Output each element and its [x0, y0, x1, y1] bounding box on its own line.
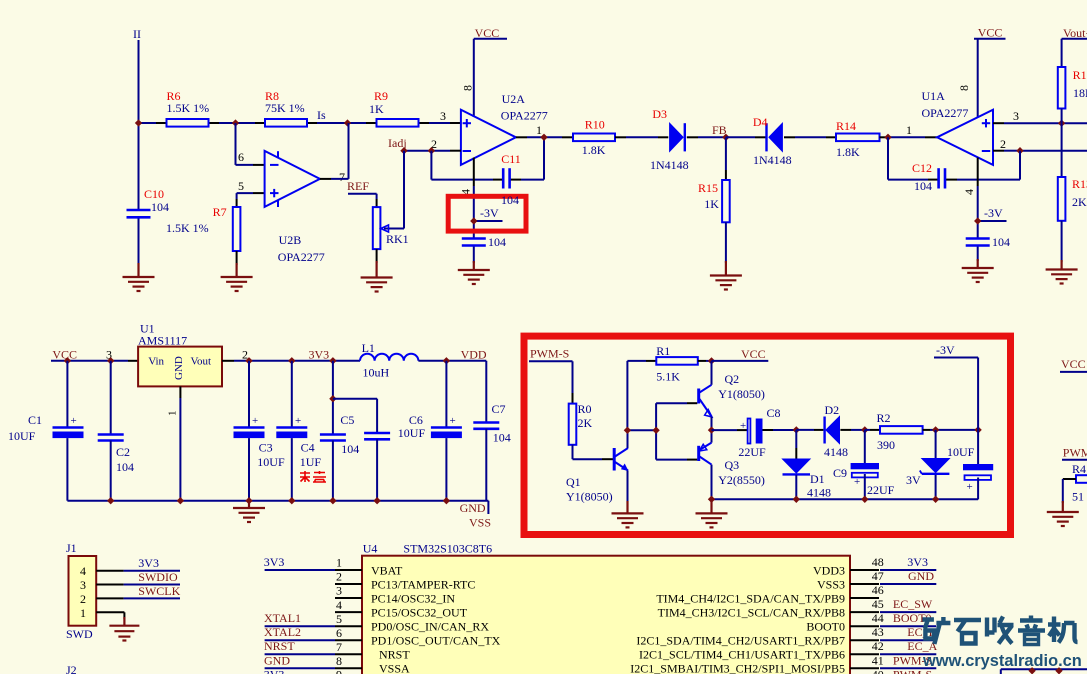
net label REF	[347, 179, 369, 193]
pin number 7	[339, 170, 345, 184]
power net VCC in PWM box	[712, 347, 769, 361]
svg-text:7: 7	[336, 640, 342, 654]
net label PWM-S pin40 (clipped)	[893, 668, 932, 674]
net label Iadj	[388, 136, 407, 150]
junction dot Iadj	[400, 147, 407, 154]
junction dot pin3 row	[1058, 120, 1065, 127]
svg-text:42: 42	[872, 639, 884, 653]
wire pin2 row of U2A	[404, 150, 461, 152]
svg-text:5: 5	[238, 179, 244, 193]
svg-text:3V3: 3V3	[907, 555, 928, 569]
wire PWM-S to R0	[529, 361, 573, 403]
wire RK1 to ground	[376, 249, 378, 263]
ground under R13	[1046, 260, 1078, 284]
wire U2A pin4 down	[473, 158, 475, 264]
svg-text:C7: C7	[492, 402, 506, 416]
junction dot -3V column	[974, 426, 981, 433]
junction dot -3V U1A	[974, 217, 981, 224]
svg-text:VSS: VSS	[469, 516, 491, 530]
capacitor C12	[912, 161, 945, 193]
connector J1	[66, 541, 96, 626]
wire U2A feedback loop	[431, 137, 544, 179]
svg-text:C1: C1	[28, 413, 42, 427]
junction dot watermark wire left	[1028, 667, 1035, 674]
wire R2 to zener junction	[923, 429, 979, 431]
svg-text:VCC: VCC	[978, 26, 1003, 40]
U4 left pin numbers	[336, 556, 342, 674]
junction dot base row left	[624, 427, 631, 434]
svg-text:R0: R0	[578, 402, 592, 416]
svg-text:D2: D2	[825, 403, 840, 417]
wire junction to D2	[796, 429, 823, 431]
svg-text:9: 9	[336, 668, 342, 674]
svg-text:R9: R9	[374, 89, 388, 103]
net label NRST	[264, 639, 295, 653]
wire R10 to D3	[615, 136, 668, 138]
resistor R2	[877, 411, 923, 452]
svg-text:1K: 1K	[704, 197, 719, 211]
svg-text:R4: R4	[1072, 462, 1086, 476]
svg-text:C11: C11	[501, 152, 521, 166]
svg-text:Y1(8050): Y1(8050)	[718, 387, 765, 401]
net label 3V3 pin9 (clipped)	[264, 668, 285, 674]
svg-text:PC13/TAMPER-RTC: PC13/TAMPER-RTC	[371, 577, 475, 591]
svg-text:D4: D4	[753, 115, 768, 129]
svg-text:C12: C12	[912, 161, 932, 175]
op-amp U2A	[461, 92, 548, 165]
svg-text:OPA2277: OPA2277	[278, 250, 325, 264]
svg-text:10UF: 10UF	[398, 426, 426, 440]
junction dot C2 rail	[107, 357, 114, 364]
wire R0 to Q1 base	[573, 445, 614, 459]
svg-text:C3: C3	[259, 441, 273, 455]
junction dots top row	[135, 119, 351, 126]
power net VCC of U1A	[974, 26, 1006, 118]
capacitor C2	[98, 361, 134, 501]
resistor R14	[836, 119, 880, 159]
inductor L1	[360, 341, 418, 380]
op-amp U1A	[922, 89, 994, 165]
power net Vout+	[1062, 26, 1087, 67]
svg-text:PWM-S: PWM-S	[530, 347, 569, 361]
svg-text:Q1: Q1	[566, 475, 581, 489]
resistor R8	[265, 89, 307, 127]
svg-text:VDD3: VDD3	[813, 563, 845, 577]
junction dot feedback U2A	[428, 147, 435, 154]
capacitor C8	[738, 406, 780, 459]
ground under RK1	[361, 261, 393, 292]
svg-text:Is: Is	[317, 108, 326, 122]
transistor Q2	[699, 372, 765, 417]
diode D4	[753, 115, 792, 167]
svg-text:R14: R14	[836, 119, 856, 133]
wire J1 pin4 row	[96, 570, 180, 572]
capacitor 10UF in PWM box	[947, 430, 993, 500]
svg-text:4: 4	[80, 564, 86, 578]
svg-text:41: 41	[872, 653, 884, 667]
svg-text:VBAT: VBAT	[371, 563, 403, 577]
svg-text:D1: D1	[810, 472, 825, 486]
diode D2	[824, 403, 848, 459]
resistor R7	[166, 205, 240, 251]
svg-text:51: 51	[1072, 490, 1084, 504]
U4 right pin numbers	[872, 555, 884, 674]
svg-text:TIM4_CH3/I2C1_SCL/CAN_RX/PB8: TIM4_CH3/I2C1_SCL/CAN_RX/PB8	[658, 605, 845, 619]
junction dot C9 top	[861, 426, 868, 433]
svg-text:U2A: U2A	[502, 92, 526, 106]
svg-text:GND: GND	[460, 501, 486, 515]
annotation red box 1	[448, 196, 526, 231]
pin number 4 of U1A (rotated)	[962, 189, 976, 195]
capacitor C6	[398, 361, 462, 501]
svg-text:U4: U4	[363, 541, 378, 555]
ground under J1	[109, 617, 139, 641]
U4 right pin stubs	[850, 570, 879, 668]
transistor Q3	[699, 443, 765, 487]
wire R13 to ground	[1061, 221, 1063, 262]
svg-text:10uH: 10uH	[363, 366, 390, 380]
wire U2B output up to junction	[320, 123, 349, 179]
wire U1A feedback loop	[888, 137, 1020, 179]
watermark glyph shi	[954, 620, 981, 644]
pin number 5	[238, 179, 244, 193]
svg-text:2: 2	[80, 592, 86, 606]
regulator U1 AMS1117	[138, 322, 222, 387]
svg-text:U1A: U1A	[922, 89, 946, 103]
svg-text:R12: R12	[1073, 68, 1087, 82]
transistor Q1	[566, 448, 629, 504]
svg-text:SWCLK: SWCLK	[138, 584, 180, 598]
svg-text:1N4148: 1N4148	[650, 158, 689, 172]
svg-text:I2C1_SMBAI/TIM3_CH2/SPI1_MOSI/: I2C1_SMBAI/TIM3_CH2/SPI1_MOSI/PB5	[630, 662, 845, 674]
watermark glyph yin	[1018, 616, 1045, 645]
svg-text:AMS1117: AMS1117	[138, 334, 187, 348]
svg-text:R10: R10	[585, 118, 605, 132]
svg-text:3: 3	[80, 578, 86, 592]
junction dot base row right	[652, 427, 659, 434]
zener diode 3V	[906, 430, 949, 500]
capacitor C1	[8, 361, 84, 501]
wire Q2 collector to VCC	[711, 361, 713, 385]
pin number 3 of U2A	[440, 109, 446, 123]
svg-text:BOOT0: BOOT0	[806, 620, 845, 634]
svg-text:VSSA: VSSA	[379, 662, 410, 674]
svg-text:104: 104	[501, 193, 519, 207]
resistor R1	[656, 344, 698, 384]
junction dots bottom rail	[107, 497, 450, 504]
ground under Q1	[612, 501, 644, 527]
pin number 1 of U2A	[536, 123, 542, 137]
node II label	[133, 27, 141, 41]
wire R4 to ground	[1063, 479, 1076, 503]
capacitor C4	[276, 361, 321, 501]
capacitor C10	[127, 187, 170, 217]
ground under U1A pin4	[962, 259, 994, 282]
svg-text:1.5K 1%: 1.5K 1%	[167, 101, 210, 115]
wire J1 pin2 row	[96, 597, 180, 599]
watermark glyph ji	[1048, 617, 1078, 643]
svg-text:1UF: 1UF	[300, 455, 322, 469]
svg-text:C8: C8	[767, 406, 781, 420]
svg-text:C6: C6	[409, 413, 423, 427]
svg-text:U2B: U2B	[279, 233, 302, 247]
svg-text:-3V: -3V	[984, 206, 1003, 220]
annotation red box 2	[524, 336, 1011, 534]
net label 3V3 at U4 pin48	[907, 555, 928, 569]
svg-text:2: 2	[336, 570, 342, 584]
junction dot zener top	[932, 426, 939, 433]
svg-text:1.8K: 1.8K	[836, 145, 860, 159]
wire D4 to R14	[784, 136, 836, 138]
pin number 8 of U1A (rotated)	[957, 85, 971, 91]
svg-text:OPA2277: OPA2277	[922, 106, 969, 120]
junction dots PWM bottom rail	[708, 496, 939, 503]
ground under R7	[221, 263, 253, 291]
svg-text:J1: J1	[66, 541, 77, 555]
svg-text:1N4148: 1N4148	[753, 153, 792, 167]
svg-text:VCC: VCC	[1061, 357, 1086, 371]
svg-text:Vin: Vin	[148, 356, 164, 368]
net label GND at U4 pin8	[264, 653, 290, 667]
U4 left pin stubs	[335, 570, 362, 668]
junction dot U1A output	[884, 134, 891, 141]
svg-text:GND: GND	[908, 569, 934, 583]
svg-text:R13: R13	[1072, 177, 1087, 191]
svg-text:8: 8	[461, 85, 475, 91]
mcu U4 body	[362, 541, 850, 674]
wire C8 to D1 junction	[763, 429, 797, 431]
svg-text:STM32S103C8T6: STM32S103C8T6	[403, 541, 492, 555]
diode D3	[650, 107, 689, 172]
junction dot -3V	[470, 217, 477, 224]
net label EC_A	[907, 639, 937, 653]
svg-text:-3V: -3V	[936, 343, 955, 357]
ground under R4	[1047, 501, 1079, 526]
svg-text:3: 3	[1013, 109, 1019, 123]
wire top row	[139, 122, 461, 124]
svg-text:J2: J2	[66, 663, 77, 674]
svg-text:R7: R7	[213, 205, 227, 219]
svg-text:+: +	[967, 481, 973, 493]
ground under R15	[710, 261, 742, 290]
svg-text:46: 46	[872, 583, 884, 597]
svg-text:EC_SW: EC_SW	[893, 597, 933, 611]
junction dot D1 top	[793, 426, 800, 433]
svg-text:2K 1%: 2K 1%	[1072, 195, 1087, 209]
svg-text:4148: 4148	[824, 445, 848, 459]
watermark link text	[922, 652, 1082, 670]
junction dot U1A pin2	[1016, 147, 1023, 154]
svg-text:Vout: Vout	[191, 356, 212, 368]
svg-text:6: 6	[336, 626, 342, 640]
svg-text:NRST: NRST	[379, 648, 410, 662]
junction dot C6 rail	[443, 357, 450, 364]
svg-text:REF: REF	[347, 179, 369, 193]
U4 left pin names	[371, 563, 501, 674]
svg-text:3: 3	[440, 109, 446, 123]
pin number 6	[238, 150, 244, 164]
svg-text:PWM: PWM	[1063, 446, 1087, 460]
U4 left net wires	[265, 570, 335, 668]
resistor R9	[369, 89, 419, 127]
power net GND VSS	[460, 501, 491, 530]
svg-text:4: 4	[962, 189, 976, 195]
net label BOOT0	[893, 611, 932, 625]
svg-text:XTAL2: XTAL2	[264, 625, 301, 639]
svg-text:8: 8	[957, 85, 971, 91]
watermark wire under link	[1001, 669, 1087, 674]
svg-text:+: +	[740, 420, 746, 432]
svg-text:VSS3: VSS3	[817, 577, 845, 591]
wire Iadj down to RK1 wiper	[403, 151, 405, 229]
capacitor 104 below U2A	[462, 235, 506, 249]
svg-text:D3: D3	[652, 107, 667, 121]
svg-text:6: 6	[238, 150, 244, 164]
power net VCC rail	[51, 348, 138, 362]
svg-text:4148: 4148	[807, 486, 831, 500]
svg-text:+: +	[252, 415, 258, 427]
pin number 4 of U2A (rotated)	[459, 189, 473, 195]
svg-text:1: 1	[536, 123, 542, 137]
svg-text:2: 2	[1000, 137, 1006, 151]
wire U2A output row	[516, 136, 573, 138]
svg-text:TIM4_CH4/I2C1_SDA/CAN_TX/PB9: TIM4_CH4/I2C1_SDA/CAN_TX/PB9	[656, 591, 845, 605]
value 104 of C11	[501, 193, 519, 207]
svg-text:VDD: VDD	[461, 348, 487, 362]
net label EC_B	[907, 625, 936, 639]
net label SWDIO	[138, 570, 178, 584]
svg-text:1.8K: 1.8K	[582, 143, 606, 157]
power net VCC of U2A	[474, 26, 507, 117]
svg-text:3V3: 3V3	[264, 668, 285, 674]
pin number 3 of U1	[106, 348, 112, 362]
svg-text:5.1K: 5.1K	[656, 370, 680, 384]
capacitor 104 below U1A	[966, 235, 1010, 249]
pin number 1 of U1A	[906, 123, 912, 137]
svg-text:I2C1_SDA/TIM4_CH2/USART1_RX/PB: I2C1_SDA/TIM4_CH2/USART1_RX/PB7	[636, 634, 845, 648]
svg-text:1K: 1K	[369, 102, 384, 116]
not-installed mark (red CJK)	[300, 471, 326, 483]
wire FB to D4	[726, 136, 766, 138]
svg-text:FB: FB	[712, 123, 727, 137]
svg-text:75K 1%: 75K 1%	[265, 101, 305, 115]
resistor R13	[1058, 177, 1087, 221]
svg-text:44: 44	[872, 611, 884, 625]
ground under Q3 rail	[696, 499, 728, 527]
svg-text:104: 104	[116, 460, 134, 474]
svg-text:104: 104	[493, 431, 511, 445]
U4 right net wires	[880, 570, 936, 668]
wire R15 to ground	[725, 222, 727, 263]
svg-text:1.5K 1%: 1.5K 1%	[166, 221, 209, 235]
wire Q3 collector down	[711, 465, 713, 500]
svg-text:8: 8	[336, 654, 342, 668]
svg-text:104: 104	[151, 200, 169, 214]
svg-text:10UF: 10UF	[8, 429, 36, 443]
svg-text:1: 1	[336, 556, 342, 570]
svg-text:II: II	[133, 27, 141, 41]
resistor R0	[569, 402, 593, 445]
svg-text:43: 43	[872, 625, 884, 639]
net label FB	[712, 123, 727, 137]
resistor R10	[573, 118, 615, 158]
svg-text:C9: C9	[833, 466, 847, 480]
wire base coupling row	[627, 403, 697, 459]
pin number 2 of U1A	[1000, 137, 1006, 151]
pin number 2 of U2A	[431, 137, 437, 151]
capacitor C5	[320, 361, 359, 501]
svg-text:+: +	[854, 476, 860, 488]
wire U1 Vout to rail	[222, 360, 360, 362]
net label -3V on U2A pin4	[474, 206, 503, 221]
svg-text:390: 390	[877, 438, 895, 452]
svg-text:7: 7	[339, 170, 345, 184]
svg-text:Y1(8050): Y1(8050)	[566, 490, 613, 504]
net label 3V3 at U4 pin1	[264, 555, 285, 569]
wire R1 to VCC junction	[698, 360, 712, 362]
watermark glyph shou	[987, 617, 1014, 644]
svg-text:5: 5	[336, 612, 342, 626]
junction dot C3 rail	[245, 357, 252, 364]
net label XTAL2	[264, 625, 301, 639]
diode D1	[783, 430, 832, 500]
svg-text:1: 1	[80, 606, 86, 620]
capacitor C11	[501, 152, 521, 189]
ground under U2A pin4	[458, 261, 490, 284]
junction dot C5 rail	[329, 357, 336, 364]
net label SWCLK	[138, 584, 180, 598]
svg-text:104: 104	[488, 235, 506, 249]
svg-text:10UF: 10UF	[257, 455, 285, 469]
svg-text:VCC: VCC	[741, 347, 766, 361]
svg-text:+: +	[71, 415, 77, 427]
bottom ground rail	[67, 501, 488, 514]
svg-text:3V3: 3V3	[138, 556, 159, 570]
svg-text:PC14/OSC32_IN: PC14/OSC32_IN	[371, 591, 455, 605]
svg-text:+: +	[450, 415, 456, 427]
op-amp U2B	[265, 151, 325, 264]
svg-text:PD1/OSC_OUT/CAN_TX: PD1/OSC_OUT/CAN_TX	[371, 634, 501, 648]
svg-text:www.crystalradio.cn: www.crystalradio.cn	[922, 652, 1082, 670]
pin number 8 of U2A (rotated)	[461, 85, 475, 91]
net label PWM-S at U4 pin41	[893, 653, 932, 667]
wire output to C8	[712, 429, 748, 431]
wire D3 to FB junction	[687, 136, 726, 138]
svg-text:45: 45	[872, 597, 884, 611]
svg-text:22UF: 22UF	[867, 483, 895, 497]
wire Q1 collector up	[627, 430, 629, 448]
resistor R4 (clipped)	[1072, 462, 1087, 504]
svg-text:3V3: 3V3	[309, 348, 330, 362]
net label PWM-S	[530, 347, 569, 361]
svg-text:I2C1_SCL/TIM4_CH1/USART1_TX/PB: I2C1_SCL/TIM4_CH1/USART1_TX/PB6	[639, 648, 845, 662]
wire FB down to R15	[725, 137, 727, 180]
svg-text:PD0/OSC_IN/CAN_RX: PD0/OSC_IN/CAN_RX	[371, 620, 489, 634]
svg-text:R15: R15	[698, 181, 718, 195]
svg-text:22UF: 22UF	[738, 445, 766, 459]
wire U1A pin2 row	[993, 150, 1087, 152]
svg-text:10UF: 10UF	[947, 445, 975, 459]
svg-text:-3V: -3V	[480, 206, 499, 220]
wire R14 to U1A output	[880, 136, 938, 138]
junction dot watermark wire right	[1055, 667, 1062, 674]
svg-text:OPA2277: OPA2277	[501, 109, 548, 123]
svg-text:R2: R2	[877, 411, 891, 425]
wire R12 to junction	[1061, 109, 1063, 178]
svg-text:+: +	[295, 415, 301, 427]
net label EC_SW	[893, 597, 933, 611]
wire REF to RK1	[348, 194, 377, 207]
